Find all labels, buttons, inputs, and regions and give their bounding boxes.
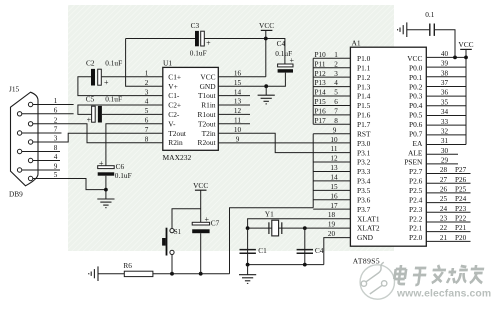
svg-text:0.1uF: 0.1uF <box>190 49 207 58</box>
power VCC top right <box>460 48 472 50</box>
wire A1 pin 3 row <box>313 76 350 78</box>
svg-text:10: 10 <box>330 136 338 144</box>
svg-text:+: + <box>99 159 104 168</box>
svg-text:6: 6 <box>54 106 58 114</box>
wire U1 pin16 VCC <box>218 76 265 78</box>
svg-text:P0.6: P0.6 <box>409 120 423 129</box>
wire A1 RST riser <box>312 134 314 208</box>
wire A1 left ladder bus <box>312 58 314 124</box>
svg-text:P11: P11 <box>315 60 326 68</box>
wire J15 pin 6 stub <box>22 113 74 115</box>
svg-text:24: 24 <box>440 205 448 213</box>
node VCC top junction <box>264 37 268 41</box>
wire A1 pin 6 row <box>313 104 350 106</box>
ground left of 0.1 cap <box>406 22 408 37</box>
svg-text:U1: U1 <box>163 58 172 67</box>
svg-text:19: 19 <box>328 221 336 229</box>
svg-text:11: 11 <box>331 145 338 153</box>
svg-text:30: 30 <box>441 147 449 155</box>
svg-text:P0.5: P0.5 <box>409 111 423 120</box>
svg-text:P23: P23 <box>455 205 467 213</box>
ground under C6 <box>97 198 114 200</box>
wire J15 pin 7 stub <box>22 132 62 134</box>
wire A1 pin 35 row <box>426 105 466 107</box>
svg-text:P3.1: P3.1 <box>357 148 371 157</box>
svg-text:3: 3 <box>334 70 338 78</box>
svg-text:26: 26 <box>440 186 448 194</box>
wire U1 pin14 T1out stub <box>218 95 250 97</box>
wire ground to 0.1 cap <box>407 29 430 31</box>
svg-text:5: 5 <box>334 89 338 97</box>
node pin40 VCC junction <box>464 56 468 60</box>
svg-text:P13: P13 <box>315 79 327 87</box>
J15 pin 1 circle <box>28 102 32 106</box>
capacitor C4 0.1uF <box>278 64 293 67</box>
wire U1 pin1 C1+ to C2 <box>102 76 163 78</box>
svg-text:6: 6 <box>334 98 338 106</box>
wire A1 pin 9 RST row <box>313 133 350 135</box>
svg-text:28: 28 <box>440 166 448 174</box>
svg-text:P10: P10 <box>315 51 327 59</box>
svg-text:P0.2: P0.2 <box>409 82 423 91</box>
wire U1 pin2 V+ riser to C3 <box>126 39 163 87</box>
wire A1 pin 15 row <box>313 189 350 191</box>
svg-text:40: 40 <box>441 50 449 58</box>
wire U1 pin10 T2in to A1 P3.1 <box>218 133 350 152</box>
wire A1 pin 1 row <box>313 57 350 59</box>
svg-text:P1.5: P1.5 <box>357 101 371 110</box>
svg-text:P2.2: P2.2 <box>409 214 423 223</box>
node pin40 cap junction <box>453 56 457 60</box>
svg-text:C4: C4 <box>277 39 286 48</box>
svg-text:T2in: T2in <box>202 129 216 138</box>
wire J15 pin 5 to ground <box>33 179 106 190</box>
wire reset rail to A1 RST riser <box>230 208 314 274</box>
wire U1 pin12 R1out stub <box>218 113 250 115</box>
svg-text:P20: P20 <box>455 234 467 242</box>
wire A1 pin 16 row <box>313 199 350 201</box>
svg-text:13: 13 <box>330 164 338 172</box>
wire C3 to VCC node and C4 <box>205 39 285 65</box>
svg-text:20: 20 <box>328 230 336 238</box>
svg-text:C2: C2 <box>86 59 95 68</box>
wire A1 pin 40 row <box>426 56 466 58</box>
svg-text:P0.4: P0.4 <box>409 101 423 110</box>
svg-text:R1in: R1in <box>201 101 216 110</box>
svg-text:14: 14 <box>330 173 338 181</box>
wire C2 to U1 pin3 C1- <box>78 77 163 96</box>
capacitor C3 <box>195 31 199 46</box>
J15 pin 5 circle <box>28 176 32 180</box>
svg-text:15: 15 <box>330 183 338 191</box>
svg-text:P2.4: P2.4 <box>409 195 423 204</box>
svg-text:+: + <box>205 215 210 224</box>
svg-text:38: 38 <box>441 69 449 77</box>
svg-text:P2.0: P2.0 <box>409 233 423 242</box>
svg-text:www.elecfans.com: www.elecfans.com <box>396 289 491 300</box>
svg-text:R1out: R1out <box>198 110 217 119</box>
wire A1 pin 22 row <box>426 231 470 233</box>
wire reset rail <box>153 273 230 275</box>
svg-text:P14: P14 <box>315 89 327 97</box>
ground under C4 <box>265 86 267 95</box>
node C6 ground junction <box>104 188 108 192</box>
svg-text:DB9: DB9 <box>9 190 23 199</box>
wire J15 pin 3 to U1 T2out <box>33 133 163 142</box>
node C4 bottom junction <box>303 263 307 267</box>
wire 0.1 cap to pin40 rail <box>434 30 455 58</box>
J15 pin 7 circle <box>17 131 21 135</box>
svg-text:7: 7 <box>334 107 338 115</box>
svg-text:16: 16 <box>330 192 338 200</box>
wire A1 pin 37 row <box>426 85 466 87</box>
svg-text:P3.5: P3.5 <box>357 186 371 195</box>
svg-text:36: 36 <box>441 89 449 97</box>
svg-text:R6: R6 <box>123 261 132 270</box>
svg-text:22: 22 <box>440 224 448 232</box>
svg-text:R2in: R2in <box>168 138 183 147</box>
svg-text:C1-: C1- <box>168 91 180 100</box>
wire A1 pin 13 row <box>313 170 350 172</box>
wire A1 pin 24 row <box>426 211 470 213</box>
svg-text:P0.0: P0.0 <box>409 63 423 72</box>
wire J15 pin 2 to U1 R2in <box>33 124 163 143</box>
J15 pin 6 circle <box>17 112 21 116</box>
svg-text:ALE: ALE <box>408 148 423 157</box>
wire A1 pin 36 row <box>426 95 466 97</box>
wire A1 XLAT1 to crystal left <box>248 219 351 228</box>
resistor R6 <box>124 271 153 276</box>
svg-text:P2.7: P2.7 <box>409 167 423 176</box>
wire A1 pin 33 row <box>426 124 466 126</box>
svg-text:5: 5 <box>54 171 58 179</box>
wire riser to A1 GND pin20 <box>324 238 351 265</box>
svg-text:PSEN: PSEN <box>404 158 423 167</box>
svg-text:V-: V- <box>168 119 176 128</box>
wire J15 pin 1 stub <box>33 104 74 106</box>
svg-text:7: 7 <box>145 126 149 134</box>
wire C5 to U1 pin5 C2- <box>102 113 163 115</box>
wire A1 pin 34 row <box>426 114 466 116</box>
svg-text:T1out: T1out <box>198 91 217 100</box>
svg-text:P1.6: P1.6 <box>357 111 371 120</box>
wire J15 pin 8 stub <box>22 151 60 153</box>
svg-text:39: 39 <box>441 60 449 68</box>
svg-text:P3.3: P3.3 <box>357 167 371 176</box>
svg-text:RST: RST <box>357 129 371 138</box>
wire A1 pin 12 row <box>313 161 350 163</box>
svg-text:XLAT2: XLAT2 <box>357 224 380 233</box>
wire A1 pin 29 PSEN stub <box>426 163 458 165</box>
wire U1 pin6 V- to C6 <box>106 124 163 166</box>
svg-text:0.1uF: 0.1uF <box>105 94 122 103</box>
svg-text:0.1uF: 0.1uF <box>105 59 122 68</box>
wire A1 pin 32 row <box>426 134 466 136</box>
capacitor C4 crystal <box>297 249 313 251</box>
power VCC top middle <box>261 29 273 31</box>
wire A1 pin 31 EA row <box>426 144 466 146</box>
wire A1 pin 7 row <box>313 114 350 116</box>
svg-text:EA: EA <box>413 139 424 148</box>
svg-text:P3.7: P3.7 <box>357 205 371 214</box>
svg-text:P1.2: P1.2 <box>357 73 371 82</box>
svg-text:C1+: C1+ <box>168 72 181 81</box>
svg-text:XLAT1: XLAT1 <box>357 214 380 223</box>
svg-text:T2out: T2out <box>198 119 217 128</box>
wire A1 pin 38 row <box>426 76 466 78</box>
node crystal left junction <box>246 226 250 230</box>
svg-text:VCC: VCC <box>193 181 208 190</box>
svg-text:VCC: VCC <box>458 40 473 49</box>
svg-text:8: 8 <box>334 117 338 125</box>
svg-text:VCC: VCC <box>407 54 422 63</box>
svg-text:23: 23 <box>440 215 448 223</box>
svg-text:P1.1: P1.1 <box>357 63 371 72</box>
svg-text:P21: P21 <box>455 224 467 232</box>
svg-text:33: 33 <box>441 118 449 126</box>
svg-text:37: 37 <box>441 79 449 87</box>
svg-text:9: 9 <box>333 126 337 134</box>
svg-text:P25: P25 <box>455 186 467 194</box>
svg-text:C1: C1 <box>258 246 267 255</box>
svg-text:8: 8 <box>54 144 58 152</box>
svg-text:8: 8 <box>145 135 149 143</box>
J15 pin 2 circle <box>28 122 32 126</box>
svg-text:VCC: VCC <box>259 21 274 30</box>
wire U1 pin4 C2+ to C5 <box>78 105 163 114</box>
wire C6 to ground <box>105 176 107 199</box>
svg-text:A1: A1 <box>352 38 361 47</box>
svg-text:3: 3 <box>54 135 58 143</box>
svg-text:P12: P12 <box>315 70 327 78</box>
svg-text:4: 4 <box>334 79 338 87</box>
wire VCC to pin40 and EA bus <box>465 49 467 144</box>
svg-text:18: 18 <box>328 211 336 219</box>
svg-text:V+: V+ <box>168 82 178 91</box>
svg-text:P1.3: P1.3 <box>357 82 371 91</box>
svg-text:P2.6: P2.6 <box>409 177 423 186</box>
wire U1 pin13 R1in stub <box>218 104 250 106</box>
crystal Y1 <box>268 222 270 234</box>
svg-text:MAX232: MAX232 <box>163 153 192 162</box>
capacitor C7 <box>192 222 209 225</box>
ground left of R6 <box>97 266 99 281</box>
svg-text:P3.6: P3.6 <box>357 195 371 204</box>
svg-text:P17: P17 <box>315 117 327 125</box>
svg-text:0.1: 0.1 <box>425 10 434 19</box>
wire crystal ground rail <box>248 264 324 266</box>
wire U1 pin15 GND to C4 bottom <box>218 73 285 87</box>
svg-text:P0.1: P0.1 <box>409 73 423 82</box>
connector J15 DB9 body <box>11 92 39 186</box>
wire A1 pin 39 row <box>426 66 466 68</box>
J15 pin 8 circle <box>17 149 21 153</box>
node GND junction <box>264 84 268 88</box>
svg-text:T2out: T2out <box>168 129 187 138</box>
wire C4 column <box>304 228 306 265</box>
power VCC above C7 <box>195 189 207 191</box>
op-amp U1 MAX232 body <box>163 67 219 150</box>
wire A1 pin 27 row <box>426 182 470 184</box>
capacitor 0.1 top right <box>429 24 431 36</box>
svg-text:P16: P16 <box>315 107 327 115</box>
svg-text:P1.4: P1.4 <box>357 92 371 101</box>
svg-text:P15: P15 <box>315 98 327 106</box>
svg-text:C2-: C2- <box>168 110 180 119</box>
wire A1 pin 25 row <box>426 202 470 204</box>
svg-text:C7: C7 <box>211 218 220 227</box>
svg-text:P2.5: P2.5 <box>409 186 423 195</box>
svg-text:P26: P26 <box>455 176 467 184</box>
node S1 junction <box>170 272 174 276</box>
wire A1 pin 26 row <box>426 192 470 194</box>
svg-text:12: 12 <box>330 155 338 163</box>
switch S1 pushbutton <box>171 255 173 274</box>
svg-text:VCC: VCC <box>200 72 215 81</box>
wire A1 pin 30 ALE stub <box>426 153 458 155</box>
wire A1 pin 5 row <box>313 95 350 97</box>
svg-text:C6: C6 <box>116 162 125 171</box>
microcontroller A1 AT89S5 body <box>350 47 426 246</box>
wire A1 pin 17 row <box>313 208 350 210</box>
wire ground to R6 <box>98 273 124 275</box>
node C1 bottom junction <box>246 263 250 267</box>
svg-text:P3.2: P3.2 <box>357 158 371 167</box>
svg-text:GND: GND <box>200 82 217 91</box>
svg-text:29: 29 <box>441 156 449 164</box>
svg-text:27: 27 <box>440 176 448 184</box>
wire top rail to C3 <box>126 38 195 40</box>
svg-text:P27: P27 <box>455 166 467 174</box>
wire A1 pin 28 row <box>426 173 470 175</box>
svg-text:17: 17 <box>330 202 338 210</box>
svg-text:9: 9 <box>236 135 240 143</box>
svg-text:32: 32 <box>441 127 449 135</box>
svg-text:S1: S1 <box>174 229 181 236</box>
wire crystal row <box>248 227 351 229</box>
svg-text:2: 2 <box>54 116 58 124</box>
svg-text:C5: C5 <box>86 94 95 103</box>
J15 pin 3 circle <box>28 140 32 144</box>
svg-text:7: 7 <box>54 126 58 134</box>
wire C1 column <box>247 228 249 265</box>
wire C7 to reset rail <box>200 233 202 274</box>
watermark logo circle <box>360 262 394 299</box>
svg-text:2: 2 <box>334 60 338 68</box>
svg-text:Y1: Y1 <box>265 210 274 219</box>
svg-text:21: 21 <box>440 234 448 242</box>
svg-text:GND: GND <box>357 233 374 242</box>
wire A1 pin 8 row <box>313 123 350 125</box>
node C7 junction <box>199 272 203 276</box>
svg-text:C3: C3 <box>191 21 200 30</box>
wire U1 pin9 R2out to A1 P3.0 <box>218 142 350 144</box>
capacitor C6 0.1uF <box>98 166 115 169</box>
svg-text:1: 1 <box>334 51 338 59</box>
svg-text:25: 25 <box>440 195 448 203</box>
svg-text:C4: C4 <box>315 246 324 255</box>
J15 pin 4 circle <box>28 158 32 162</box>
wire U1 pin11 stub <box>218 123 250 125</box>
svg-text:P22: P22 <box>455 215 467 223</box>
svg-text:P1.7: P1.7 <box>357 120 371 129</box>
svg-text:+: + <box>104 78 109 87</box>
node crystal right junction <box>303 226 307 230</box>
svg-text:9: 9 <box>54 163 58 171</box>
capacitor C5 <box>92 106 96 122</box>
J15 pin 9 circle <box>17 168 21 172</box>
wire J15 pin 4 stub <box>33 160 60 162</box>
wire J15 pin 9 stub <box>22 169 60 171</box>
svg-text:0.1uF: 0.1uF <box>275 49 292 58</box>
svg-text:34: 34 <box>441 108 449 116</box>
svg-text:31: 31 <box>441 137 449 145</box>
svg-text:+: + <box>206 39 211 48</box>
ground under C1 <box>247 265 249 275</box>
svg-text:P0.3: P0.3 <box>409 92 423 101</box>
svg-text:P1.0: P1.0 <box>357 54 371 63</box>
svg-text:P2.3: P2.3 <box>409 205 423 214</box>
svg-text:4: 4 <box>54 153 58 161</box>
wire A1 pin 21 row <box>426 240 470 242</box>
watermark text dian zi fa shao you <box>393 265 484 285</box>
wire A1 pin 14 row <box>313 180 350 182</box>
svg-text:35: 35 <box>441 98 449 106</box>
capacitor C2 <box>91 69 95 86</box>
svg-text:P0.7: P0.7 <box>409 129 423 138</box>
svg-text:P3.4: P3.4 <box>357 177 371 186</box>
capacitor C1 <box>240 249 256 251</box>
svg-text:P24: P24 <box>455 195 467 203</box>
svg-text:J15: J15 <box>9 85 19 94</box>
svg-text:C2+: C2+ <box>168 101 181 110</box>
svg-text:P3.0: P3.0 <box>357 139 371 148</box>
wire A1 pin 23 row <box>426 221 470 223</box>
svg-text:0.1uF: 0.1uF <box>115 171 132 180</box>
svg-text:R2out: R2out <box>198 138 217 147</box>
svg-text:P2.1: P2.1 <box>409 224 423 233</box>
svg-text:+: + <box>87 115 92 124</box>
wire A1 pin 4 row <box>313 86 350 88</box>
svg-text:1: 1 <box>54 97 58 105</box>
wire A1 pin 2 row <box>313 67 350 69</box>
